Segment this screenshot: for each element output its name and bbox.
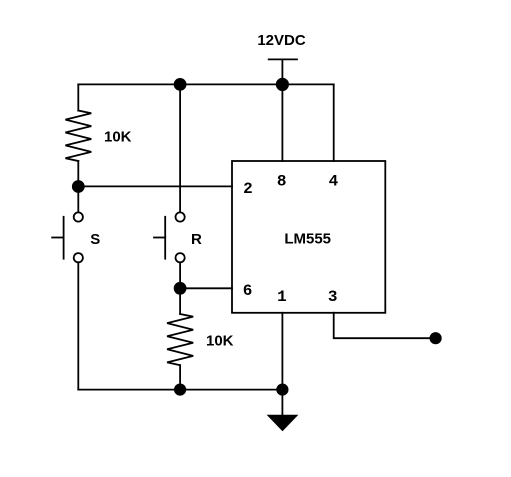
svg-text:R: R (191, 231, 202, 248)
pushbutton S actuator tick (52, 237, 63, 239)
svg-text:12VDC: 12VDC (257, 32, 306, 49)
node output terminal (430, 333, 440, 343)
pushbutton S actuator (63, 217, 65, 259)
node R-branch junction (175, 79, 186, 90)
wire pin6 (180, 287, 232, 289)
svg-text:LM555: LM555 (284, 230, 331, 247)
svg-text:3: 3 (328, 288, 338, 306)
pushbutton R actuator tick (154, 237, 165, 239)
pushbutton S bottom contact (74, 253, 83, 262)
wire pin2 (78, 185, 232, 187)
svg-text:8: 8 (277, 173, 287, 191)
wire S bottom lead (77, 263, 79, 390)
pushbutton R top contact (176, 212, 185, 221)
wire pin8 (281, 84, 283, 161)
node R2/bottom junction (175, 384, 185, 394)
wire pin4 (333, 84, 335, 161)
wire bottom rail (78, 389, 282, 391)
IC U1 LM555 body (232, 161, 385, 313)
svg-text:2: 2 (243, 180, 253, 198)
resistor R2 (167, 314, 193, 365)
wire S top lead (77, 187, 79, 212)
wire R2 top lead (179, 288, 181, 314)
wire top rail (78, 83, 333, 85)
wire R2 bottom lead (179, 365, 181, 389)
ground symbol (269, 416, 297, 430)
wire power stub (281, 60, 283, 85)
wire ground stub (281, 390, 283, 416)
wire R branch drop (179, 84, 181, 211)
wire pin3 output (334, 313, 436, 338)
resistor R1 (65, 111, 91, 162)
pushbutton S top contact (74, 212, 83, 221)
wire R bottom lead (179, 263, 181, 288)
svg-text:1: 1 (277, 288, 287, 306)
node power junction (277, 79, 288, 90)
node pin6 junction (175, 283, 186, 294)
wire R1 top lead (77, 84, 79, 110)
node R1/pin2 junction (73, 181, 84, 192)
node ground junction (277, 384, 287, 394)
svg-text:4: 4 (329, 173, 339, 191)
svg-text:10K: 10K (206, 333, 234, 350)
pushbutton R actuator (164, 217, 166, 259)
pushbutton R bottom contact (176, 253, 185, 262)
svg-text:10K: 10K (104, 129, 132, 146)
power rail bar (269, 58, 297, 60)
wire R1 bottom lead (77, 161, 79, 187)
svg-text:6: 6 (243, 282, 253, 300)
wire pin1 (281, 313, 283, 390)
svg-text:S: S (90, 231, 100, 248)
